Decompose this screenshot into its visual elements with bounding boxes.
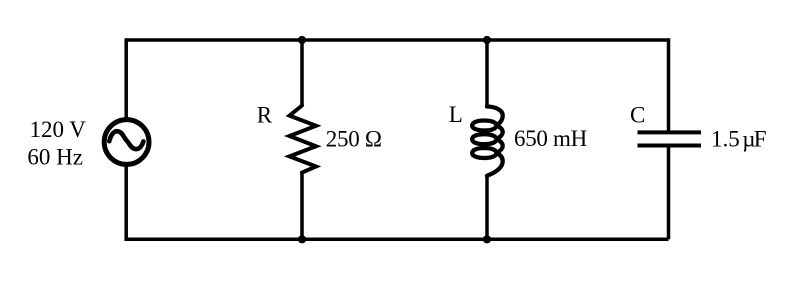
capacitor C1 bottom plate [638,144,702,148]
label R value 250 ohm [326,127,382,152]
wire C top [667,38,671,130]
wire R top [300,40,304,107]
ac source V1 circle [104,120,149,165]
wire top bus [126,38,668,42]
label source value 60 Hz [27,145,83,170]
svg-text:C: C [630,102,645,127]
label C designator [630,102,645,127]
svg-text:L: L [449,102,463,127]
resistor R1 zigzag [290,106,317,173]
svg-text:120 V: 120 V [29,117,86,142]
wire left upper (source to top bus) [124,38,128,118]
label C value 1.5 uF [711,127,766,152]
svg-text:60 Hz: 60 Hz [27,145,83,170]
junction bottom R [298,235,306,243]
svg-text:R: R [257,102,273,127]
label L value 650 mH [514,126,587,151]
label L designator [449,102,463,127]
label source value 120 V [29,117,86,142]
junction bottom L [483,235,491,243]
svg-text:650 mH: 650 mH [514,126,587,151]
ac source V1 sine wave [109,131,143,149]
wire L top [485,40,489,108]
wire R bottom [300,172,304,240]
wire left lower (source to bottom bus) [124,166,128,241]
capacitor C1 top plate [638,130,702,134]
svg-text:1.5: 1.5 [711,127,740,152]
svg-text:µF: µF [742,127,765,152]
junction top R [298,36,306,44]
wire C bottom [667,146,671,240]
wire L bottom [485,175,489,239]
wire bottom bus [126,238,668,242]
junction top L [483,36,491,44]
inductor L1 coil [472,107,503,176]
svg-text:250 Ω: 250 Ω [326,127,382,152]
label R designator [257,102,273,127]
